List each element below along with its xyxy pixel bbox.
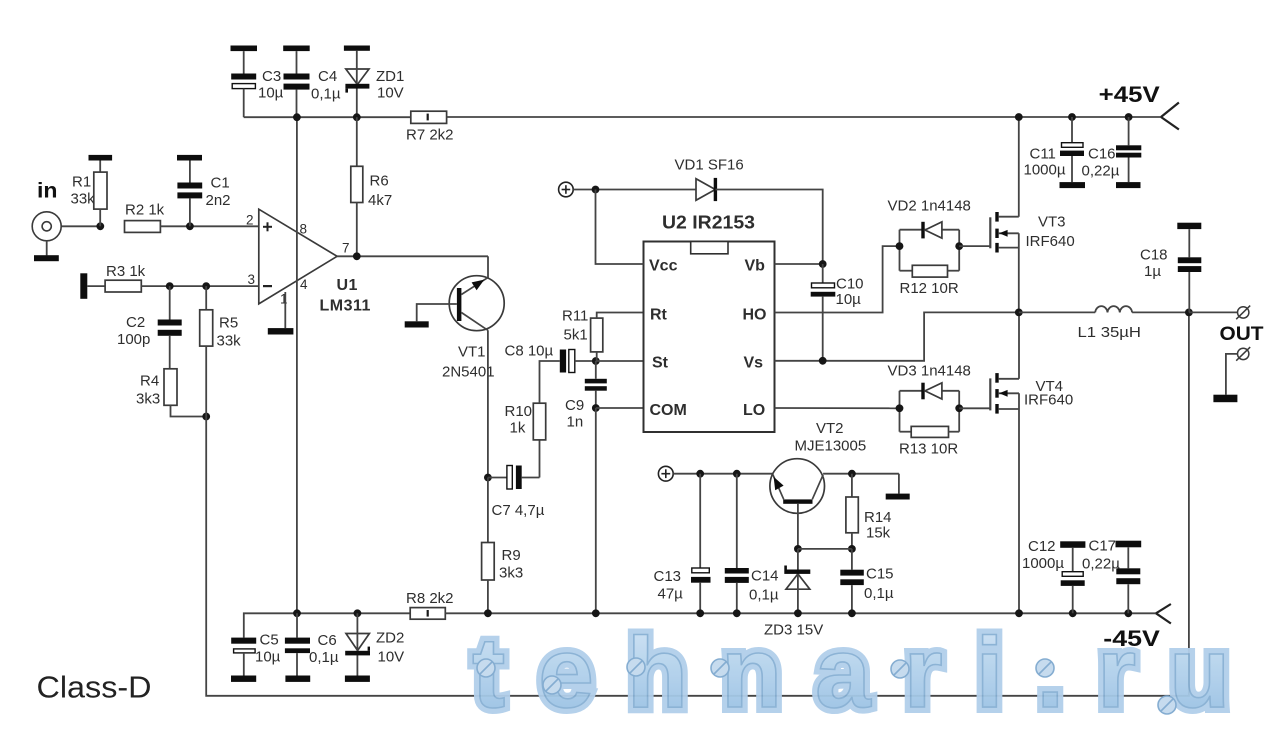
svg-text:10µ: 10µ xyxy=(258,85,284,102)
wire VT2 base down xyxy=(797,504,799,549)
diode VD2 (1n4148) xyxy=(921,222,942,239)
svg-text:4k7: 4k7 xyxy=(368,192,392,209)
wire VT4 drain to switch node xyxy=(1018,312,1020,378)
node U (C16 on +45V) xyxy=(1125,113,1133,121)
wire output down to VT1 emitter xyxy=(487,256,489,278)
node O (HO drive left) xyxy=(896,242,904,250)
svg-text:2n2: 2n2 xyxy=(206,192,231,209)
svg-text:Class-D: Class-D xyxy=(37,670,152,705)
node I (VT1 collector / C7 / R9) xyxy=(484,474,492,482)
wire + to node L xyxy=(573,189,696,191)
capacitor C2 xyxy=(158,286,182,369)
node C (C2 junction) xyxy=(166,282,174,290)
svg-text:Rt: Rt xyxy=(650,307,668,324)
svg-text:R12 10R: R12 10R xyxy=(900,280,959,297)
wire switch node to L1 xyxy=(1019,311,1095,313)
svg-text:7: 7 xyxy=(342,241,350,256)
svg-text:R10: R10 xyxy=(505,403,533,420)
power bar (C1 top) xyxy=(177,155,202,161)
wire COM line down to -rail xyxy=(595,408,597,613)
wire VD2/R12 right branch xyxy=(958,230,960,271)
svg-text:LM311: LM311 xyxy=(320,298,371,315)
IC U2 box xyxy=(644,242,775,433)
power bar (C4 top) xyxy=(283,46,310,52)
capacitor C12 (1000u electrolytic) xyxy=(1061,548,1085,614)
capacitor C4 (0.1u) xyxy=(284,51,310,117)
wire OUT node to terminal xyxy=(1189,311,1238,313)
svg-text:R1: R1 xyxy=(72,174,91,191)
capacitor C5 (10u electrolytic) xyxy=(231,638,256,676)
wire Vs to switch node xyxy=(775,312,1019,360)
transistor VT1 (2N5401) xyxy=(449,276,504,331)
node AH (C14 on rail) xyxy=(733,609,741,617)
node G (ZD1/R6 on 10V rail) xyxy=(353,113,361,121)
wire -45V bus xyxy=(445,612,1156,614)
svg-text:10µ: 10µ xyxy=(255,649,281,666)
svg-text:R11: R11 xyxy=(562,308,588,325)
wire HO to VD2 node xyxy=(775,246,900,312)
svg-text:47µ: 47µ xyxy=(658,586,684,603)
capacitor C6 (0.1u) xyxy=(285,613,310,675)
resistor R2 xyxy=(125,221,161,233)
wire Vcc pin path xyxy=(596,190,644,265)
svg-text:R6: R6 xyxy=(370,173,389,190)
capacitor C16 (0.22u) xyxy=(1116,117,1141,182)
wire R2 to op-amp pin2 xyxy=(160,225,258,227)
node AE (R9 on rail) xyxy=(484,609,492,617)
power bar (C6 bottom) xyxy=(285,676,310,682)
wire 10V rail (C3 to R7) xyxy=(244,116,411,118)
wire to VT4 gate xyxy=(959,407,990,409)
resistor R10 xyxy=(533,403,545,440)
wire St pin xyxy=(596,360,644,362)
svg-text:R14: R14 xyxy=(864,509,892,526)
svg-text:R4: R4 xyxy=(140,373,159,390)
wire to VT3 gate xyxy=(959,245,990,247)
svg-text:U2 IR2153: U2 IR2153 xyxy=(662,213,755,233)
capacitor C10 (10u) xyxy=(811,264,836,361)
svg-text:2: 2 xyxy=(246,213,254,228)
svg-text:1µ: 1µ xyxy=(1144,263,1161,280)
wire R11 bottom stub xyxy=(596,352,598,361)
svg-text:C11: C11 xyxy=(1030,146,1056,163)
svg-text:1k: 1k xyxy=(510,420,526,437)
svg-text:U1: U1 xyxy=(337,277,358,294)
watermark tehnari.ru xyxy=(472,617,1263,729)
svg-text:C14: C14 xyxy=(751,568,779,585)
wire bar to R3 xyxy=(87,285,105,287)
svg-text:VT2: VT2 xyxy=(816,420,844,437)
svg-text:R9: R9 xyxy=(502,547,521,564)
node A (input/R1/R2) xyxy=(96,222,104,230)
resistor R12 xyxy=(900,265,960,277)
wire LO to VD3 node xyxy=(775,407,900,409)
power bar (C11 bottom) xyxy=(1060,182,1086,188)
diode VD1 (SF16) xyxy=(696,178,717,201)
svg-text:R3 1k: R3 1k xyxy=(106,263,146,280)
zener diode ZD1 xyxy=(345,51,369,117)
svg-text:St: St xyxy=(652,355,669,372)
node N (Vs/C10) xyxy=(819,357,827,365)
capacitor C17 (0.22u) xyxy=(1116,547,1140,613)
svg-text:C1: C1 xyxy=(211,175,230,192)
node AD (ZD2 on rail) xyxy=(354,609,362,617)
ground (VT1 base) xyxy=(405,321,429,327)
node X (C13 top) xyxy=(696,470,704,478)
svg-text:33k: 33k xyxy=(217,333,242,350)
power bar (R1 top) xyxy=(89,155,113,161)
capacitor C15 (0.1u) xyxy=(840,549,864,613)
svg-text:L1 35µH: L1 35µH xyxy=(1078,324,1142,341)
wire U1 output (pin7) xyxy=(337,255,488,257)
wire feedback frame (R5 down, bottom, right up to OUT node) xyxy=(206,312,1189,696)
svg-text:Vs: Vs xyxy=(744,355,764,372)
node B (C1 junction) xyxy=(186,222,194,230)
svg-text:1000µ: 1000µ xyxy=(1024,162,1066,179)
power bar (C3 top) xyxy=(231,46,258,52)
transistor VT2 (MJE13005) xyxy=(770,459,825,514)
capacitor C8 (10u) xyxy=(560,350,596,373)
capacitor C18 (1u) xyxy=(1178,229,1202,312)
svg-text:C13: C13 xyxy=(654,568,682,585)
resistor R5 xyxy=(200,286,213,346)
OUT terminal (hot) xyxy=(1236,306,1250,320)
wire VD1 to Vb branch xyxy=(716,190,823,265)
svg-text:3: 3 xyxy=(248,272,256,287)
svg-text:8: 8 xyxy=(300,222,308,237)
resistor R8 xyxy=(410,608,445,620)
OUT terminal (return) xyxy=(1236,347,1250,361)
svg-text:Vcc: Vcc xyxy=(649,258,678,275)
svg-text:10V: 10V xyxy=(378,649,405,666)
zener diode ZD3 xyxy=(784,549,810,613)
wire OUT return to ground xyxy=(1226,354,1238,395)
svg-text:C16: C16 xyxy=(1088,146,1116,163)
node Z (R14 top) xyxy=(848,470,856,478)
svg-text:IRF640: IRF640 xyxy=(1024,392,1073,409)
node P (HO drive right) xyxy=(955,242,963,250)
svg-text:C15: C15 xyxy=(866,566,894,583)
node J (C8/R11/St) xyxy=(592,357,600,365)
svg-text:100p: 100p xyxy=(117,331,150,348)
svg-text:C18: C18 xyxy=(1140,247,1168,264)
wire base node to R14 node xyxy=(798,548,852,550)
svg-text:33k: 33k xyxy=(71,191,96,208)
node T (C11 on +45V) xyxy=(1068,113,1076,121)
wire pin1 to ground xyxy=(284,292,286,328)
svg-text:0,1µ: 0,1µ xyxy=(749,587,779,604)
svg-text:C2: C2 xyxy=(126,314,145,331)
capacitor C13 (47u electrolytic) xyxy=(691,474,711,614)
svg-text:VD3 1n4148: VD3 1n4148 xyxy=(888,363,971,380)
node AA (base/ZD3) xyxy=(794,545,802,553)
svg-text:C8 10µ: C8 10µ xyxy=(505,343,554,360)
node V (switch node) xyxy=(1015,309,1023,317)
ground (VT2 collector) xyxy=(886,494,910,500)
wire VT4 source to -45V rail xyxy=(1018,393,1020,613)
capacitor C9 (1n) xyxy=(585,361,607,408)
capacitor C7 (4.7u) xyxy=(488,466,540,490)
power bar (C18 top) xyxy=(1177,223,1201,229)
svg-text:10µ: 10µ xyxy=(836,291,862,308)
node D (R5 junction) xyxy=(202,282,210,290)
svg-text:R13 10R: R13 10R xyxy=(899,441,958,458)
svg-text:VT3: VT3 xyxy=(1038,214,1066,231)
svg-text:ZD1: ZD1 xyxy=(376,68,404,85)
svg-text:R5: R5 xyxy=(219,315,238,332)
svg-text:C6: C6 xyxy=(318,632,337,649)
node W (L1/C18/OUT) xyxy=(1185,309,1193,317)
svg-text:C4: C4 xyxy=(318,68,337,85)
supply + terminal (VT2 side) xyxy=(658,466,673,481)
svg-text:tehnari.ru: tehnari.ru xyxy=(472,617,1263,729)
power bar (ZD1 top) xyxy=(344,46,370,51)
svg-text:1000µ: 1000µ xyxy=(1022,555,1064,572)
op-amp U1 triangle xyxy=(259,209,337,304)
svg-text:3k3: 3k3 xyxy=(499,565,523,582)
resistor R6 xyxy=(351,117,363,256)
capacitor C14 (0.1u) xyxy=(725,474,749,614)
wire VT1 base to ground xyxy=(417,304,457,321)
svg-text:3k3: 3k3 xyxy=(136,391,160,408)
wire VD2/R12 left branch xyxy=(899,230,901,271)
resistor R4 xyxy=(164,369,177,406)
resistor R7 xyxy=(411,111,447,123)
svg-text:+45V: +45V xyxy=(1099,82,1160,107)
svg-text:R2 1k: R2 1k xyxy=(125,202,165,219)
wire +45V bus xyxy=(447,116,1161,118)
terminal bar (R3 left) xyxy=(80,273,87,299)
ground (op-amp pin 1) xyxy=(268,328,294,334)
wire COM pin xyxy=(596,407,644,409)
svg-text:C10: C10 xyxy=(836,276,864,293)
wire VT1 collector down xyxy=(487,330,489,477)
input jack J1 xyxy=(32,212,100,241)
node AK (VT4 source on rail) xyxy=(1015,609,1023,617)
wire collector to ground xyxy=(898,474,900,494)
U2 notch xyxy=(691,242,728,254)
wire R10 up to C8 xyxy=(540,361,560,403)
node F (C4 on 10V rail) xyxy=(293,113,301,121)
svg-text:0,1µ: 0,1µ xyxy=(309,649,339,666)
wire R3 to op-amp pin3 xyxy=(141,285,258,287)
node H (pin7/R6) xyxy=(353,252,361,260)
diode VD3 (1n4148) xyxy=(921,383,942,400)
power bar (C5 bottom) xyxy=(231,676,256,682)
capacitor C1 xyxy=(177,161,202,227)
svg-text:C7 4,7µ: C7 4,7µ xyxy=(492,502,545,519)
node R (LO drive right) xyxy=(955,404,963,412)
node AB (R14/C15) xyxy=(848,545,856,553)
svg-text:0,1µ: 0,1µ xyxy=(864,585,894,602)
node AI (ZD3 on rail) xyxy=(794,609,802,617)
transistor VT4 (IRF640 MOSFET) xyxy=(990,373,1019,414)
svg-text:15k: 15k xyxy=(866,525,891,542)
svg-text:VD2 1n4148: VD2 1n4148 xyxy=(888,198,971,215)
svg-text:ZD2: ZD2 xyxy=(376,630,404,647)
svg-text:IRF640: IRF640 xyxy=(1026,233,1075,250)
wire VD3 top branch xyxy=(900,390,960,392)
transistor VT3 (IRF640 MOSFET) xyxy=(990,212,1019,253)
svg-text:2N5401: 2N5401 xyxy=(442,364,495,381)
power bar (C12 top) xyxy=(1060,541,1085,548)
node AC (C6/pin4 on rail) xyxy=(293,609,301,617)
wire R4 to R5 line xyxy=(171,405,207,416)
node K (C9/COM) xyxy=(592,404,600,412)
node S (VT3 drain on +45V) xyxy=(1015,113,1023,121)
capacitor C3 (10u electrolytic) xyxy=(231,51,256,117)
svg-text:OUT: OUT xyxy=(1220,324,1264,345)
node Y (C14 top) xyxy=(733,470,741,478)
svg-text:Vb: Vb xyxy=(745,258,766,275)
+45V arrow xyxy=(1161,103,1179,130)
svg-text:0,22µ: 0,22µ xyxy=(1082,556,1120,573)
wire VT3 drain to +45V xyxy=(1018,117,1020,217)
wire VD3/R13 left branch xyxy=(899,391,901,432)
power bar (C17 top) xyxy=(1116,541,1142,548)
node AF (COM line on rail) xyxy=(592,609,600,617)
svg-text:R8 2k2: R8 2k2 xyxy=(406,590,454,607)
svg-text:10V: 10V xyxy=(377,85,404,102)
resistor R3 xyxy=(105,280,141,292)
resistor R14 xyxy=(846,474,858,549)
svg-text:COM: COM xyxy=(650,402,687,419)
supply + terminal (VD1 side) xyxy=(559,182,574,197)
svg-text:R7 2k2: R7 2k2 xyxy=(406,127,454,144)
U1 plus input mark xyxy=(263,222,272,231)
svg-text:4: 4 xyxy=(300,277,308,292)
wire Vb pin xyxy=(775,263,823,265)
power bar (C16 bottom) xyxy=(1116,182,1141,188)
svg-text:LO: LO xyxy=(743,402,765,419)
zener diode ZD2 xyxy=(345,613,370,675)
U1 minus input mark xyxy=(263,285,272,287)
svg-text:C12: C12 xyxy=(1028,538,1056,555)
node Q (LO drive left) xyxy=(896,404,904,412)
svg-text:VT1: VT1 xyxy=(458,344,486,361)
wire pin8/pin4 supply line through U1 xyxy=(296,117,298,613)
svg-text:C5: C5 xyxy=(260,632,279,649)
wire VT2 collector xyxy=(823,473,899,475)
node M (Vb/C10) xyxy=(819,260,827,268)
wire VT3 source to switch node xyxy=(1018,233,1020,312)
resistor R11 xyxy=(591,313,644,352)
ground (input jack) xyxy=(34,241,59,261)
node E (R4/R5 junction) xyxy=(202,413,210,421)
resistor R13 xyxy=(900,426,960,437)
resistor R9 xyxy=(482,478,495,614)
node AG (C13 on rail) xyxy=(696,609,704,617)
node AJ (C15 on rail) xyxy=(848,609,856,617)
wire + to VT2 emitter xyxy=(673,473,772,475)
svg-text:5k1: 5k1 xyxy=(564,327,588,344)
wire VD2 top branch xyxy=(900,229,960,231)
inductor L1 xyxy=(1095,306,1132,312)
node AL (C12 on rail) xyxy=(1069,609,1077,617)
wire C7 up to R10 xyxy=(539,440,541,478)
node L (Vcc branch) xyxy=(592,186,600,194)
wire VD3/R13 right branch xyxy=(958,391,960,432)
svg-text:1: 1 xyxy=(280,292,288,307)
resistor R1 xyxy=(94,161,107,227)
svg-text:C9: C9 xyxy=(565,397,584,414)
svg-text:0,1µ: 0,1µ xyxy=(311,86,341,103)
svg-text:HO: HO xyxy=(743,307,767,324)
wire L1 to OUT node xyxy=(1132,311,1189,313)
svg-text:1n: 1n xyxy=(567,414,584,431)
wire -10V rail (C5 to R8) xyxy=(244,613,410,637)
capacitor C11 (1000u electrolytic) xyxy=(1060,117,1084,182)
svg-text:C3: C3 xyxy=(262,68,281,85)
power bar (ZD2 bottom) xyxy=(345,676,370,682)
svg-text:in: in xyxy=(37,180,58,203)
svg-text:VD1 SF16: VD1 SF16 xyxy=(675,157,744,174)
-45V arrow xyxy=(1156,604,1171,624)
svg-text:C17: C17 xyxy=(1089,538,1117,555)
node AM (C17 on rail) xyxy=(1124,609,1132,617)
svg-text:0,22µ: 0,22µ xyxy=(1082,163,1120,180)
svg-text:MJE13005: MJE13005 xyxy=(795,438,867,455)
ground (OUT return) xyxy=(1213,395,1237,403)
